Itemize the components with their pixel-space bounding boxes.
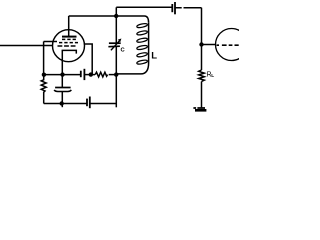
capacitor (bypass, bottom rail) left plate — [86, 99, 88, 107]
tube V1 grid row 1 — [62, 38, 77, 40]
tube V1 plate lead — [68, 16, 70, 37]
node: bottom rail dot — [60, 101, 64, 105]
tube V1 plate bar — [62, 36, 77, 38]
variable capacitor C arrow — [111, 41, 119, 50]
wire: resistor to ground — [201, 82, 203, 108]
tube V1 envelope — [53, 30, 85, 62]
wire: antenna input line — [0, 45, 53, 47]
capacitor (cathode bypass) top lead — [61, 75, 63, 87]
wire: riser to top rail — [115, 7, 117, 16]
variable capacitor C lower lead — [115, 47, 117, 104]
node: top junction dot — [114, 14, 118, 18]
node: right junction dot — [199, 42, 203, 46]
capacitor (coupling, rail1) right plate — [83, 69, 85, 80]
svg-text:L: L — [211, 73, 214, 79]
node: cathode junction dot — [60, 72, 64, 76]
resistor (horizontal, rail1) zigzag — [95, 72, 107, 77]
wire: cathode rail (rail1) — [44, 74, 81, 76]
detector internal dashed line — [217, 44, 239, 46]
inductor L loops — [136, 23, 147, 65]
tube V1 grid row 2 — [59, 42, 78, 44]
resistor (grid leak, vertical) — [41, 75, 46, 104]
tube V1 cathode/heater — [62, 50, 76, 74]
svg-text:C: C — [121, 48, 126, 54]
svg-text:L: L — [151, 51, 157, 62]
wire: plate to top node — [69, 15, 117, 17]
wire: grid lead vertical — [43, 42, 45, 75]
wire: top rail to blocking capacitor — [116, 6, 171, 8]
variable capacitor C top plate — [109, 42, 121, 44]
wire: lead into detector — [202, 44, 216, 46]
capacitor (bypass, bottom rail) right plate — [89, 97, 91, 109]
wire: cap to resistor — [85, 74, 95, 76]
inductor L winding line — [148, 23, 150, 63]
wire: resistor to tank node — [109, 74, 117, 76]
tube V1 screen lead out right — [84, 44, 92, 75]
wire: right drop to junction — [201, 8, 203, 45]
variable capacitor C bottom plate — [108, 45, 120, 48]
node: grid-leak junction dot — [42, 73, 46, 77]
wire: coil bottom to tank node — [116, 63, 148, 74]
node: screen junction dot — [89, 72, 93, 76]
capacitor (blocking, top right) right plate — [174, 2, 176, 14]
capacitor (blocking, top right) left plate — [171, 4, 173, 12]
wire: tank top to coil — [116, 16, 148, 23]
wire: bottom rail corner tail — [115, 104, 117, 108]
detector envelope (clipped circle) — [216, 29, 248, 61]
wire: junction down to load resistor — [201, 45, 203, 71]
tube V1 grid row 3 — [58, 45, 78, 47]
node: tank bottom junction dot — [114, 72, 118, 76]
wire: bottom rail right — [90, 103, 116, 105]
capacitor (cathode bypass) bottom plate — [54, 90, 71, 92]
capacitor (cathode bypass) top plate — [55, 87, 71, 89]
capacitor (coupling, rail1) left plate — [80, 71, 82, 78]
ground symbol — [193, 107, 205, 109]
wire: blocking cap to right corner — [175, 7, 201, 9]
wire: grid lead horizontal into tube — [44, 41, 57, 43]
variable capacitor C upper lead — [115, 16, 117, 43]
wire: bottom rail left — [44, 103, 87, 105]
resistor RL zigzag — [199, 70, 205, 82]
capacitor (cathode bypass) bottom lead — [61, 91, 63, 107]
